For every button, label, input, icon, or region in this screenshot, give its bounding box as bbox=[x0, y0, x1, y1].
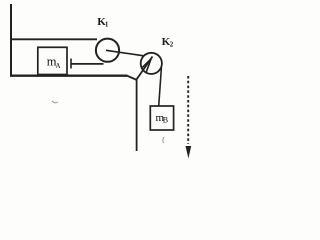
pointer arrow head barb lower bbox=[146, 59, 151, 72]
block mA bbox=[38, 47, 67, 74]
pointer arrow shaft to K2 bbox=[136, 57, 153, 81]
pointer arrow head barb left bbox=[142, 58, 151, 67]
svg-text:B: B bbox=[163, 116, 168, 125]
block mB bbox=[150, 106, 173, 130]
table right edge bbox=[136, 79, 138, 151]
table corner slant bbox=[127, 76, 137, 81]
svg-text:2: 2 bbox=[170, 40, 174, 48]
wall (left vertical support) bbox=[10, 4, 12, 77]
table surface bbox=[10, 75, 127, 77]
dashed motion arrow (head) bbox=[186, 146, 192, 159]
svg-text:1: 1 bbox=[105, 20, 109, 28]
dashed motion arrow (line) bbox=[187, 76, 189, 144]
wire: string from K1 to K2 bbox=[106, 50, 144, 56]
wire: string from mA to pulley K1 bbox=[71, 63, 104, 65]
string attachment hook at block mA bbox=[70, 59, 72, 69]
wire: string from K2 down to mB bbox=[159, 68, 162, 107]
table top bracket line bbox=[10, 38, 97, 40]
pulley K2 bbox=[141, 53, 162, 74]
svg-text:A: A bbox=[55, 62, 61, 70]
pulley K1 bbox=[96, 39, 119, 62]
faint smudge under mB bbox=[163, 137, 164, 143]
faint smudge under table bbox=[52, 101, 58, 103]
